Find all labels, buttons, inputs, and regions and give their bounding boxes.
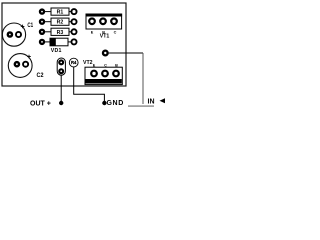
resistor R3 left pad [40,30,44,34]
resistor R3 right pad [71,29,76,34]
wire [69,11,72,13]
svg-text:VD1: VD1 [51,48,62,54]
svg-text:R2: R2 [57,20,64,26]
node pad input [103,51,108,56]
scan artifact line [128,105,154,107]
capacitor C2 body [8,54,32,78]
transistor VT1 pad C [111,19,117,25]
resistor R4 pad top [59,60,63,64]
resistor R4 label circle [69,58,78,67]
transistor VT1 tab bar [86,14,123,17]
transistor VT2 pad C [102,71,108,77]
arrow IN [160,98,166,103]
resistor R4 body outline [57,58,65,75]
wire [68,41,72,43]
wire [69,31,72,33]
capacitor C1 pad positive [16,32,21,37]
transistor VT2 pad E [91,71,97,77]
resistor R2 [51,18,69,25]
wire [69,21,72,23]
wire [44,41,50,43]
transistor VT2 body [85,67,122,84]
svg-text:R1: R1 [57,10,64,16]
diode VD1 body [50,38,68,46]
svg-text:VT1: VT1 [100,34,110,40]
transistor VT1 pad E [89,19,95,25]
svg-text:C: C [114,30,117,34]
svg-text:E: E [91,30,94,34]
wire IN vertical [142,53,144,104]
resistor R2 right pad [71,19,76,24]
wire GND elbow [74,67,105,102]
capacitor C2 pad positive [23,62,28,67]
wire [44,21,51,23]
wire to board edge [108,52,143,54]
diode VD1 cathode band [50,38,56,46]
PCB board outline [2,3,126,86]
transistor VT1 pad B [100,19,106,25]
resistor R1 right pad [71,9,76,14]
node GND dot [102,101,106,105]
svg-text:R4: R4 [71,60,77,65]
svg-text:R3: R3 [57,30,64,36]
resistor R4 pad bottom [59,69,63,73]
transistor VT2 pad B [113,71,119,77]
capacitor C2 polarity plus [27,55,31,59]
transistor VT1 body [86,14,122,29]
svg-text:C1: C1 [27,22,33,29]
capacitor C1 pad negative [8,32,12,36]
resistor R3 [51,28,69,35]
capacitor C1 polarity plus [21,25,25,29]
diode VD1 left pad [40,40,44,44]
resistor R1 left pad [40,10,44,14]
svg-text:VT2: VT2 [83,60,93,66]
svg-text:OUT +: OUT + [30,101,51,108]
capacitor C1 body [2,23,25,46]
wire [44,31,51,33]
resistor R1 [51,8,69,15]
svg-text:C2: C2 [37,72,44,79]
node OUT dot [59,101,63,105]
svg-text:IN: IN [148,99,155,106]
svg-text:GND: GND [107,100,124,107]
resistor R2 left pad [40,20,44,24]
wire OUT [60,75,62,102]
diode VD1 right pad [71,39,76,44]
transistor VT2 tab bar [86,79,122,84]
wire [44,11,51,13]
capacitor C2 pad negative [15,62,19,66]
